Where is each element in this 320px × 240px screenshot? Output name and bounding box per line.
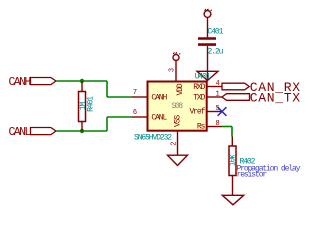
pin 4 RXD <box>207 86 222 88</box>
capacitor C401 <box>198 39 216 45</box>
wire CANL horizontal <box>56 130 107 132</box>
svg-text:CANL: CANL <box>151 114 167 123</box>
resistor R402 <box>229 137 236 196</box>
svg-text:Rs: Rs <box>197 123 206 132</box>
wire Rs horizontal <box>222 126 232 128</box>
wire CANL vertical step <box>106 117 108 131</box>
svg-text:VDD: VDD <box>176 83 185 95</box>
svg-text:SN65HVD232: SN65HVD232 <box>134 133 172 142</box>
ground (under R402) <box>222 195 243 205</box>
svg-text:S08: S08 <box>172 102 184 111</box>
svg-text:6: 6 <box>133 109 137 117</box>
svg-text:CANH: CANH <box>9 76 31 89</box>
svg-text:Vref: Vref <box>189 108 205 117</box>
wire C401 bottom lead <box>207 46 209 71</box>
svg-text:resistor: resistor <box>237 171 268 180</box>
pin 3 VDD <box>175 61 177 82</box>
svg-text:CANH: CANH <box>151 94 167 103</box>
wire CANH horizontal <box>56 80 107 82</box>
svg-text:2: 2 <box>170 141 178 145</box>
svg-text:3: 3 <box>169 68 177 72</box>
svg-text:TXD: TXD <box>193 94 205 103</box>
svg-text:2.2u: 2.2u <box>208 47 224 56</box>
svg-text:RXD: RXD <box>193 83 205 92</box>
svg-text:C401: C401 <box>208 27 224 36</box>
wire CANH to pin7 <box>107 96 132 98</box>
wire Rs vertical <box>231 127 233 137</box>
pin 8 Rs <box>207 126 222 128</box>
svg-text:CAN_TX: CAN_TX <box>250 91 301 106</box>
svg-text:CANL: CANL <box>9 126 32 139</box>
ground (under IC VSS) <box>168 155 188 165</box>
ground (under C401) <box>197 71 218 80</box>
hierarchical label CAN_RX <box>222 83 249 90</box>
junction dot bottom <box>80 129 84 133</box>
pin 7 CANH <box>132 96 147 98</box>
svg-text:U401: U401 <box>195 73 211 82</box>
resistor R401 <box>79 81 86 131</box>
hierarchical label CAN_TX <box>222 94 250 101</box>
IC U401 SN65HVD232 body <box>148 82 207 131</box>
pin 1 TXD <box>207 96 222 98</box>
svg-text:1: 1 <box>215 91 219 99</box>
pin 2 VSS <box>177 131 179 155</box>
wire CANL to pin6 <box>107 116 132 118</box>
svg-text:4: 4 <box>215 80 219 88</box>
pin 5 Vref <box>207 111 222 113</box>
wire CANH vertical step <box>106 81 108 97</box>
svg-text:R401: R401 <box>87 96 96 112</box>
power symbol VCC (top, feeds C401) <box>204 9 212 37</box>
junction dot top <box>80 79 84 83</box>
svg-text:7: 7 <box>133 89 137 97</box>
pin 6 CANL <box>132 116 147 118</box>
svg-text:VSS: VSS <box>174 115 183 127</box>
power symbol VCC (feeds VDD pin 3) <box>173 53 180 61</box>
no-connect X on Vref <box>218 107 227 116</box>
svg-text:8: 8 <box>215 120 219 128</box>
